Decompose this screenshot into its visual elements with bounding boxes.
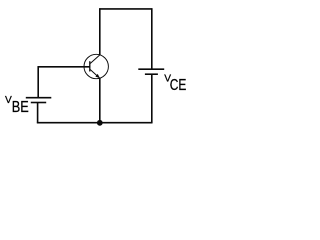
wire right vertical upper (top wire to VCE +): [151, 8, 153, 69]
svg-text:BE: BE: [12, 99, 29, 116]
wire top horizontal (collector to VCE): [99, 8, 152, 10]
wire collector vertical: [99, 8, 101, 55]
wire base horizontal: [38, 66, 90, 68]
wire right vertical lower (VCE - to bottom wire): [151, 74, 153, 123]
wire left vertical upper (base wire to VBE +): [37, 66, 39, 98]
battery VCE: [138, 69, 164, 74]
wire emitter vertical: [99, 78, 101, 123]
label VCE: [164, 74, 186, 95]
transistor Q1: [84, 54, 108, 78]
label VBE: [5, 95, 29, 116]
battery VBE: [26, 98, 52, 103]
node junction dot: [97, 120, 103, 126]
wire bottom horizontal: [37, 122, 152, 124]
wire left vertical lower (VBE - to bottom wire): [37, 103, 39, 124]
svg-text:CE: CE: [170, 77, 187, 94]
